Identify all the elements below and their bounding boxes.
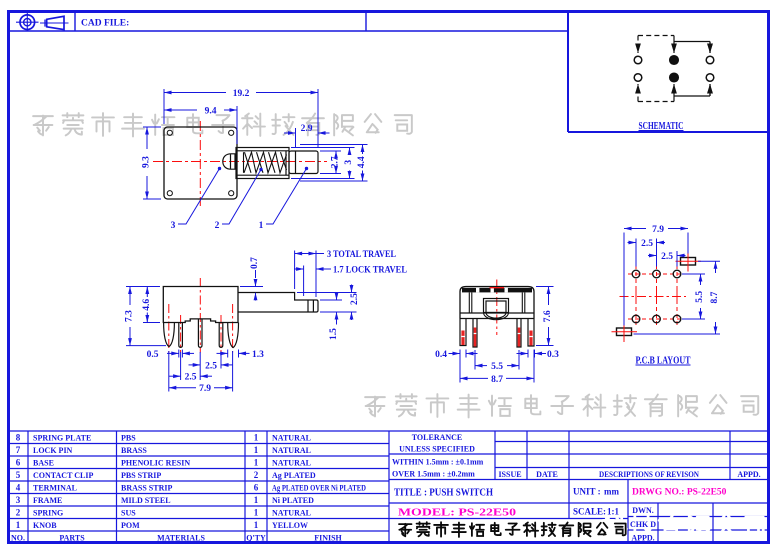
company name black text bbox=[399, 522, 626, 537]
svg-text:1:1: 1:1 bbox=[607, 507, 619, 517]
svg-text:PARTS: PARTS bbox=[59, 534, 85, 543]
svg-text:1: 1 bbox=[254, 520, 259, 530]
svg-text:6: 6 bbox=[16, 458, 21, 468]
pcb dim 2.5 first bbox=[628, 239, 666, 267]
end view leg solder plating red bbox=[463, 331, 531, 346]
dim 0.5 terminal width bbox=[167, 350, 194, 358]
svg-text:0.3: 0.3 bbox=[547, 350, 559, 360]
knob tip (part 1 end) bbox=[223, 154, 237, 169]
svg-text:SPRING PLATE: SPRING PLATE bbox=[33, 434, 91, 443]
dim 9.4 horizontal bbox=[164, 106, 237, 144]
dim 2.9 horizontal bbox=[284, 128, 330, 148]
svg-text:7: 7 bbox=[16, 445, 21, 455]
dim 9.3 vertical bbox=[143, 127, 161, 199]
dim 0.3 bbox=[517, 350, 547, 358]
pcb slot bottom left bbox=[617, 328, 632, 336]
pcb hole pin 1 bbox=[632, 270, 640, 278]
terminal pin 1 (NC, open) bbox=[634, 56, 642, 64]
dim 3 TOTAL TRAVEL bbox=[295, 251, 324, 298]
svg-text:DWN.: DWN. bbox=[632, 506, 654, 515]
mounting lug leg right bbox=[228, 323, 239, 348]
svg-text:3 TOTAL TRAVEL: 3 TOTAL TRAVEL bbox=[327, 250, 396, 260]
svg-text:1: 1 bbox=[254, 458, 259, 468]
end view legs bbox=[460, 319, 534, 348]
svg-text:0.7: 0.7 bbox=[250, 257, 260, 269]
end view red centerline bbox=[496, 280, 498, 336]
svg-text:NATURAL: NATURAL bbox=[272, 459, 311, 468]
end view inner walls bbox=[469, 293, 525, 314]
svg-text:1: 1 bbox=[254, 433, 259, 443]
svg-text:mm: mm bbox=[604, 487, 619, 497]
svg-text:9.3: 9.3 bbox=[142, 156, 152, 168]
watermark row middle: company name gray bbox=[365, 394, 758, 417]
parts table row 3 bbox=[16, 495, 314, 505]
svg-text:FINISH: FINISH bbox=[314, 534, 342, 543]
svg-text:LOCK PIN: LOCK PIN bbox=[33, 446, 73, 455]
dim 4.6 bbox=[143, 287, 160, 323]
dim 1.7 LOCK TRAVEL bbox=[294, 266, 331, 297]
mounting lug leg left bbox=[164, 323, 175, 347]
svg-text:TERMINAL: TERMINAL bbox=[33, 484, 77, 493]
svg-text:Q'TY: Q'TY bbox=[246, 534, 266, 543]
wire solid top right bbox=[674, 42, 710, 54]
parts table grid bbox=[9, 431, 390, 543]
svg-text:CHK D: CHK D bbox=[630, 520, 656, 529]
svg-text:DESCRIPTIONS OF REVISON: DESCRIPTIONS OF REVISON bbox=[599, 470, 699, 479]
svg-text:8.7: 8.7 bbox=[710, 291, 720, 303]
terminal pin 2 (common pole, filled) bbox=[670, 56, 679, 65]
dim 1.5 lock tip bbox=[320, 294, 342, 325]
title block grid bbox=[389, 431, 769, 543]
svg-text:4.6: 4.6 bbox=[142, 299, 152, 311]
pcb red middle centerline bbox=[620, 296, 687, 298]
dim 7.6 bbox=[536, 287, 554, 346]
top view red centerline horizontal bbox=[153, 161, 327, 163]
svg-text:2: 2 bbox=[254, 470, 259, 480]
leader part 1 bbox=[266, 169, 307, 225]
svg-text:4: 4 bbox=[16, 483, 21, 493]
dim 2.5 terminal pitch right bbox=[189, 352, 233, 369]
terminal pin 5 (common pole, filled) bbox=[670, 73, 679, 82]
svg-text:DATE: DATE bbox=[536, 470, 558, 479]
pcb red dashed hole centerlines bbox=[628, 265, 684, 328]
svg-text:POM: POM bbox=[121, 521, 140, 530]
svg-text:2.5: 2.5 bbox=[185, 373, 197, 383]
wire bottom middle vertical bbox=[673, 84, 675, 102]
svg-text:NATURAL: NATURAL bbox=[272, 446, 311, 455]
svg-text:NO.: NO. bbox=[11, 534, 25, 543]
svg-text:MATERIALS: MATERIALS bbox=[157, 534, 205, 543]
wire dashed top left bbox=[638, 35, 674, 37]
watermark row top: company name gray bbox=[33, 113, 412, 136]
dim 7.9 lug pitch bbox=[169, 351, 233, 392]
pcb dim 8.7 bbox=[634, 261, 721, 334]
svg-text:CAD FILE:: CAD FILE: bbox=[81, 19, 129, 29]
svg-text:2.5: 2.5 bbox=[641, 239, 653, 249]
svg-text:1: 1 bbox=[254, 495, 259, 505]
svg-text:BRASS: BRASS bbox=[121, 446, 147, 455]
svg-text:2.5: 2.5 bbox=[661, 252, 673, 262]
svg-text:4.4: 4.4 bbox=[357, 156, 367, 168]
svg-text:5.5: 5.5 bbox=[491, 362, 503, 372]
svg-text:2.5: 2.5 bbox=[205, 361, 217, 371]
svg-text:YELLOW: YELLOW bbox=[272, 521, 308, 530]
svg-text:UNIT :: UNIT : bbox=[573, 487, 601, 497]
top view red centerline vertical bbox=[199, 121, 201, 206]
front view body with notched bottom bbox=[163, 287, 238, 323]
svg-text:UNLESS SPECIFIED: UNLESS SPECIFIED bbox=[399, 445, 475, 454]
leader part 3 bbox=[178, 169, 220, 225]
svg-text:Ni PLATED: Ni PLATED bbox=[272, 496, 314, 505]
svg-text:SCALE:: SCALE: bbox=[573, 507, 606, 517]
svg-text:7.3: 7.3 bbox=[125, 310, 135, 322]
dim 19.2 horizontal bbox=[164, 89, 318, 148]
svg-text:NATURAL: NATURAL bbox=[272, 509, 311, 518]
svg-text:3: 3 bbox=[344, 160, 354, 165]
svg-text:2: 2 bbox=[16, 508, 21, 518]
svg-text:OVER 1.5mm : ±0.2mm: OVER 1.5mm : ±0.2mm bbox=[392, 470, 475, 479]
pcb dim 2.5 second bbox=[648, 251, 686, 267]
svg-text:APPD.: APPD. bbox=[631, 534, 654, 543]
svg-text:2.9: 2.9 bbox=[301, 124, 313, 134]
pcb hole pin 6 bbox=[673, 315, 681, 323]
svg-text:0.5: 0.5 bbox=[147, 350, 159, 360]
svg-text:SPRING: SPRING bbox=[33, 509, 63, 518]
spring coils (part 2) bbox=[244, 152, 287, 173]
front view plunger shaft with lock tip bbox=[238, 293, 318, 313]
parts table row 7 bbox=[16, 445, 311, 455]
wire solid bottom right bbox=[674, 84, 710, 96]
dim 0.4 bbox=[449, 350, 478, 358]
parts table row 8 bbox=[16, 433, 311, 443]
svg-text:5: 5 bbox=[16, 470, 21, 480]
svg-text:SUS: SUS bbox=[121, 509, 136, 518]
dim 3 vertical right bbox=[291, 148, 355, 179]
terminal pin 6 (NO, open) bbox=[706, 74, 714, 82]
terminal pin 3 (NO, open) bbox=[706, 56, 714, 64]
dim 0.7 bbox=[240, 270, 263, 301]
end view red center tick bbox=[490, 287, 505, 289]
svg-text:WITHIN 1.5mm : ±0.1mm: WITHIN 1.5mm : ±0.1mm bbox=[392, 458, 484, 467]
dim 8.7 bbox=[460, 350, 534, 383]
svg-text:MILD STEEL: MILD STEEL bbox=[121, 496, 171, 505]
top view switch body (frame part 3) bbox=[164, 127, 237, 199]
dim 2.5 terminal pitch left bbox=[169, 352, 212, 380]
svg-text:2: 2 bbox=[215, 221, 220, 231]
pcb hole pin 2 bbox=[653, 270, 661, 278]
plunger shaft (part 1) bbox=[289, 151, 318, 174]
svg-text:BRASS STRIP: BRASS STRIP bbox=[121, 484, 172, 493]
svg-text:8: 8 bbox=[16, 433, 21, 443]
svg-text:1: 1 bbox=[254, 445, 259, 455]
svg-text:TOLERANCE: TOLERANCE bbox=[412, 433, 463, 442]
svg-text:ISSUE: ISSUE bbox=[498, 470, 521, 479]
svg-text:7.9: 7.9 bbox=[652, 225, 664, 235]
end view knob window bbox=[484, 299, 509, 313]
leader part 2 bbox=[222, 170, 261, 225]
svg-text:Ag PLATED: Ag PLATED bbox=[272, 471, 316, 480]
svg-text:9.4: 9.4 bbox=[205, 107, 217, 117]
wire dashed bottom left bbox=[638, 101, 674, 103]
dim 1.3 lug width bbox=[217, 350, 250, 358]
svg-text:2.5: 2.5 bbox=[350, 293, 360, 305]
svg-text:P.C.B LAYOUT: P.C.B LAYOUT bbox=[636, 356, 691, 367]
terminal pin 4 (NC, open) bbox=[634, 74, 642, 82]
svg-text:5.5: 5.5 bbox=[695, 291, 705, 303]
pcb hole pin 5 bbox=[653, 315, 661, 323]
svg-text:8.7: 8.7 bbox=[491, 375, 503, 385]
svg-text:1.3: 1.3 bbox=[252, 350, 264, 360]
pcb dim 5.5 bbox=[682, 274, 705, 319]
spring housing bbox=[236, 148, 289, 179]
svg-text:1: 1 bbox=[259, 221, 264, 231]
svg-text:SCHEMATIC: SCHEMATIC bbox=[639, 121, 684, 132]
svg-text:BASE: BASE bbox=[33, 459, 54, 468]
dim 5.5 bbox=[475, 350, 519, 370]
svg-text:NATURAL: NATURAL bbox=[272, 434, 311, 443]
end view housing outline bbox=[460, 287, 534, 319]
schematic box bbox=[568, 12, 769, 133]
pcb hole pin 4 bbox=[632, 315, 640, 323]
dim 7.3 bbox=[126, 287, 166, 346]
svg-text:1: 1 bbox=[254, 508, 259, 518]
terminal leg 3 bbox=[219, 323, 223, 348]
svg-text:2.7: 2.7 bbox=[331, 156, 341, 168]
pcb slot top right bbox=[681, 258, 696, 266]
end view dome arcs bbox=[484, 313, 509, 320]
front view red centerlines through legs bbox=[169, 278, 233, 353]
dim 2.7 vertical right bbox=[320, 151, 341, 174]
terminal leg 1 bbox=[179, 323, 183, 348]
company name black text halo bbox=[399, 522, 626, 537]
terminal leg 2 bbox=[198, 319, 202, 348]
parts table row 2 bbox=[16, 508, 311, 518]
parts table row 5 bbox=[16, 470, 316, 480]
svg-text:0.4: 0.4 bbox=[435, 350, 447, 360]
parts table header row bbox=[11, 534, 343, 543]
parts table row 1 bbox=[16, 520, 308, 530]
wire top middle vertical bbox=[673, 36, 675, 54]
svg-text:1.7 LOCK TRAVEL: 1.7 LOCK TRAVEL bbox=[333, 266, 407, 276]
svg-text:PBS STRIP: PBS STRIP bbox=[121, 471, 161, 480]
dim 2.5 shaft height bbox=[297, 285, 357, 321]
svg-text:PHENOLIC RESIN: PHENOLIC RESIN bbox=[121, 459, 190, 468]
svg-text:APPD.: APPD. bbox=[737, 470, 760, 479]
svg-text:6: 6 bbox=[254, 483, 259, 493]
svg-text:DRWG NO.: PS-22E50: DRWG NO.: PS-22E50 bbox=[632, 488, 727, 498]
first-angle projection symbol: circle target bbox=[16, 13, 39, 31]
svg-text:KNOB: KNOB bbox=[33, 521, 57, 530]
svg-text:19.2: 19.2 bbox=[233, 89, 250, 99]
svg-text:MODEL: PS-22E50: MODEL: PS-22E50 bbox=[398, 507, 517, 519]
svg-text:3: 3 bbox=[16, 495, 21, 505]
svg-text:Ag PLATED OVER Ni PLATED: Ag PLATED OVER Ni PLATED bbox=[272, 484, 366, 493]
pcb hole pin 3 bbox=[673, 270, 681, 278]
white watermark overlay erasing lines (bottom right) bbox=[603, 516, 763, 539]
svg-text:1.5: 1.5 bbox=[329, 328, 339, 340]
parts table row 4 bbox=[16, 483, 366, 493]
svg-text:CONTACT CLIP: CONTACT CLIP bbox=[33, 471, 93, 480]
pcb dim 7.9 bbox=[624, 229, 688, 326]
svg-text:1: 1 bbox=[16, 520, 21, 530]
svg-text:FRAME: FRAME bbox=[33, 496, 62, 505]
svg-text:3: 3 bbox=[171, 221, 176, 231]
dim 4.4 vertical right bbox=[300, 145, 368, 182]
svg-text:7.6: 7.6 bbox=[543, 310, 553, 322]
end view metal frame top edge (dark band) bbox=[462, 288, 532, 293]
schematic drawing bbox=[638, 36, 710, 102]
projection symbol: cone bbox=[40, 16, 69, 29]
svg-text:TITLE : PUSH SWITCH: TITLE : PUSH SWITCH bbox=[394, 487, 493, 499]
title bar: CAD FILE box bbox=[9, 12, 569, 32]
svg-text:PBS: PBS bbox=[121, 434, 136, 443]
svg-text:7.9: 7.9 bbox=[199, 384, 211, 394]
parts table row 6 bbox=[16, 458, 311, 468]
